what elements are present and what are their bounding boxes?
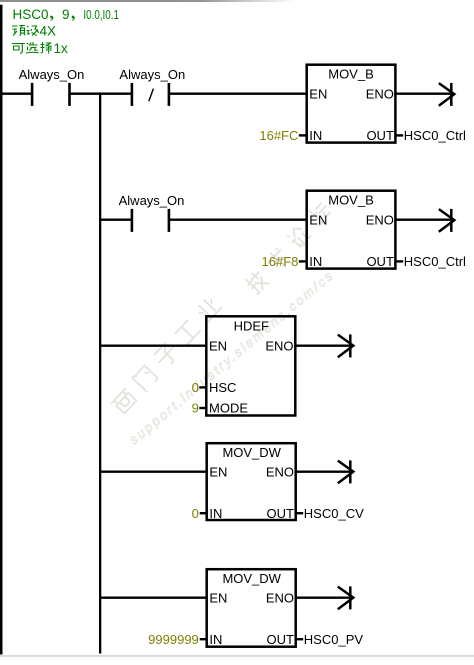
green comment line 3: 可选择1x (可/选/择 drawn) [12,42,52,54]
svg-text:9999999: 9999999 [148,632,199,647]
pin stub OUT box2 [396,260,403,262]
wire rung3: feed to HDEF box [100,345,207,347]
pin stub MODE [199,407,205,409]
vertical feed wire from rung1 junction down [99,92,101,653]
svg-text:IN: IN [309,128,322,143]
arrow terminal rung1 [439,83,455,106]
wire rung3: HDEF ENO to arrow [295,345,349,347]
pin stub IN box2 [299,260,306,262]
svg-text:4X: 4X [40,23,57,38]
contact Always_On (NO) on rung2 [132,209,169,232]
box U5 MOV_DW (rung5) [207,569,296,647]
network wires [0,94,450,598]
pin stub IN box1 [299,134,306,136]
svg-text:0: 0 [192,506,199,521]
svg-text:Always_On: Always_On [119,67,185,82]
svg-text:EN: EN [309,213,327,228]
svg-text:HSC0_CV: HSC0_CV [304,506,364,521]
pin stub OUT box5 [296,638,303,640]
svg-text:0: 0 [192,380,199,395]
svg-text:9: 9 [62,7,70,22]
box U4 MOV_DW (rung4) [207,443,296,520]
svg-text:ENO: ENO [266,590,294,605]
wire rung1: box1 ENO to arrow [396,92,450,94]
pin stub IN box4 [200,512,206,514]
svg-text:EN: EN [209,338,227,353]
svg-text:HSC0_Ctrl: HSC0_Ctrl [404,128,466,143]
box U2 MOV_B (rung2) [307,191,396,269]
arrow terminal rung3 [338,334,354,357]
svg-text:Always_On: Always_On [119,193,185,208]
bottom separator line [0,655,474,657]
svg-text:HSC0_PV: HSC0_PV [304,632,364,647]
svg-text:MODE: MODE [209,401,248,416]
wire rung2: feed to contact3 [100,218,132,220]
arrow terminal rung2 [439,209,455,232]
svg-text:Always_On: Always_On [19,67,85,82]
contact Always_On (NC, slash) on rung1 [132,83,169,106]
watermark: latin url line, rotated italic [126,267,337,447]
svg-text:HSC0_Ctrl: HSC0_Ctrl [404,254,466,269]
watermark: Chinese line 1 "西门子工业" outlined, rotated [112,296,222,415]
svg-text:I0.0,I0.1: I0.0,I0.1 [83,7,119,22]
pin stub OUT box1 [396,134,403,136]
svg-text:HSC0: HSC0 [13,7,49,22]
svg-text:1x: 1x [54,41,69,56]
svg-text:16#F8: 16#F8 [262,254,299,269]
svg-text:IN: IN [309,254,322,269]
green comment text line 1: HSC0，9，I0.0,I0.1 [13,7,120,22]
svg-text:9: 9 [192,401,199,416]
pin stub OUT box4 [296,512,303,514]
svg-text:ENO: ENO [266,464,294,479]
watermark: Chinese line 2 "技术论坛" outlined, rotated [245,200,333,295]
wire rung5: box5 ENO to arrow [296,597,350,599]
wire rung1: contact1 to contact2 (junction at feed) [69,92,132,94]
box U3 HDEF (rung3) [206,316,295,415]
svg-text:MOV_B: MOV_B [328,192,374,207]
svg-text:HDEF: HDEF [234,319,269,334]
svg-text:MOV_B: MOV_B [328,66,374,81]
wire rung1: contact2 to MOV_B box1 [169,92,307,94]
svg-text:IN: IN [209,506,222,521]
svg-text:ENO: ENO [366,87,394,102]
svg-text:EN: EN [309,87,327,102]
svg-text:MOV_DW: MOV_DW [222,571,281,586]
svg-text:ENO: ENO [366,213,394,228]
wire rung1: rail to contact1 [0,92,32,94]
svg-text:IN: IN [209,632,222,647]
box U1 MOV_B (rung1) [307,65,396,143]
wire rung4: box4 ENO to arrow [296,471,350,473]
wire rung2: contact3 to MOV_B box2 [169,218,307,220]
svg-text:OUT: OUT [366,254,394,269]
arrow terminal rung4 [338,460,354,483]
svg-text:16#FC: 16#FC [259,128,298,143]
pin stub IN box5 [200,638,206,640]
svg-text:HSC: HSC [209,380,236,395]
wire rung5: feed to MOV_DW box5 [100,597,208,599]
svg-text:EN: EN [209,590,227,605]
svg-text:EN: EN [209,464,227,479]
svg-text:MOV_DW: MOV_DW [222,445,281,460]
left power rail [0,5,3,655]
svg-text:OUT: OUT [267,506,295,521]
svg-text:OUT: OUT [366,128,394,143]
green comment line 2: 预设4X (预/设 drawn) [12,26,39,36]
svg-text:OUT: OUT [267,632,295,647]
contact Always_On (NO) on rung1 [32,83,69,106]
arrow terminal rung5 [338,586,354,609]
wire rung4: feed to MOV_DW box4 [100,471,208,473]
wire rung2: box2 ENO to arrow [396,218,450,220]
svg-text:ENO: ENO [265,338,293,353]
pin stub HSC [199,386,205,388]
